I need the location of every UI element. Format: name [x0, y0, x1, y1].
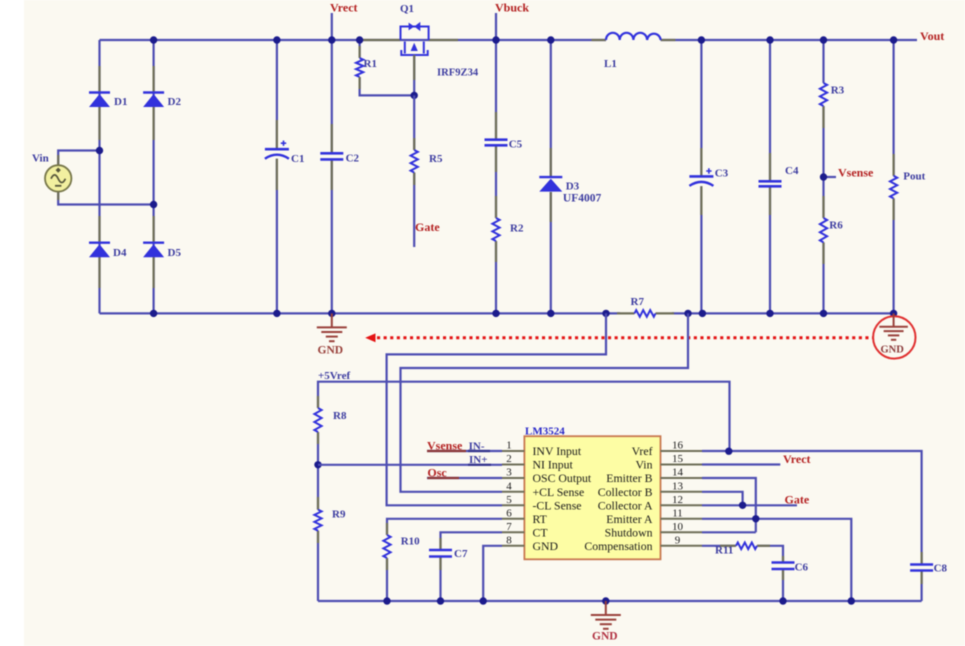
node top rail C5 [492, 36, 499, 43]
ground GND left [317, 313, 347, 341]
svg-text:Vin: Vin [636, 458, 653, 472]
underline Vsense [427, 450, 466, 452]
pin stubs R5 [413, 138, 415, 150]
node ground bus C4 [766, 310, 773, 317]
source Vin [45, 165, 71, 191]
svg-text:Vref: Vref [632, 444, 653, 458]
inductor L1 [606, 33, 661, 40]
pin stub R1 bottom [359, 77, 361, 89]
resistor R3 [820, 83, 827, 106]
svg-text:11: 11 [672, 507, 683, 519]
svg-text:Compensation: Compensation [584, 539, 652, 553]
svg-text:R7: R7 [631, 296, 645, 308]
wire C3 column [700, 40, 702, 313]
svg-text:Vrect: Vrect [330, 1, 358, 15]
pin 5 stub [502, 504, 524, 506]
node ground bus Pout corner [890, 310, 897, 317]
pin 14 stub [661, 477, 703, 479]
wire Vout stub [894, 39, 917, 41]
svg-text:INV Input: INV Input [533, 444, 582, 458]
pin stubs L1 [592, 39, 607, 41]
svg-text:C1: C1 [291, 153, 304, 165]
svg-text:GND: GND [881, 345, 905, 356]
pin 4 stub [502, 491, 524, 493]
wire R8 R9 column [317, 432, 319, 601]
svg-text:D2: D2 [168, 96, 182, 108]
node ground bus C1 [273, 310, 280, 317]
pin stubs C1 [276, 120, 278, 149]
svg-text:10: 10 [672, 521, 684, 533]
svg-text:R10: R10 [401, 536, 420, 548]
pin 1 stub [502, 450, 524, 452]
resistor R9 [314, 510, 321, 531]
svg-text:Vbuck: Vbuck [495, 1, 529, 15]
node R8 R9 junction [314, 461, 321, 468]
wire top rail Vrect-Vout [100, 39, 894, 41]
wire Vrect label stub [331, 13, 333, 40]
pin 9 stub [661, 545, 703, 547]
svg-text:1: 1 [506, 440, 512, 452]
underline IN- [468, 450, 490, 452]
pin stubs Pout [892, 154, 894, 176]
svg-text:16: 16 [672, 440, 684, 452]
pin 6 stub [502, 518, 524, 520]
wire C1 column [276, 40, 278, 313]
node bottom bus C6 [779, 597, 786, 604]
wire pin8 GND [483, 546, 502, 601]
svg-text:14: 14 [672, 467, 684, 479]
node gate junction [411, 92, 418, 99]
node top rail Vrect [328, 36, 335, 43]
node top rail C1 [273, 36, 280, 43]
ground GND right [879, 313, 908, 339]
svg-text:D1: D1 [114, 96, 127, 108]
diode D1 [89, 93, 110, 108]
resistor R1 [356, 58, 363, 77]
ground GND bottom [591, 601, 621, 629]
capacitor C4 [759, 181, 782, 186]
resistor R2 [492, 218, 499, 241]
wire D3 column [550, 40, 552, 313]
svg-text:R5: R5 [429, 153, 443, 165]
pin stub Q1 drain right [429, 39, 458, 41]
pin 2 stub [502, 464, 524, 466]
pin 8 stub [502, 545, 524, 547]
svg-text:R11: R11 [715, 545, 733, 557]
capacitor C6 [772, 563, 795, 570]
underline Osc [427, 477, 459, 479]
svg-text:GND: GND [592, 631, 618, 643]
capacitor C2 [320, 153, 343, 159]
pin stub Q1 gate [413, 55, 415, 80]
wire Vbuck label stub [495, 13, 497, 40]
node top rail C3 [698, 36, 705, 43]
wire R1 bottom to gate node [360, 77, 415, 95]
svg-text:3: 3 [506, 467, 512, 479]
pin stubs R7 [617, 312, 635, 314]
svg-text:RT: RT [533, 512, 548, 526]
svg-text:Vin: Vin [32, 153, 49, 165]
wire Vin top [58, 151, 99, 166]
wire Q1 gate stem [413, 55, 415, 95]
ground return arrow [365, 333, 872, 342]
svg-text:Pout: Pout [903, 171, 925, 183]
svg-text:8: 8 [506, 534, 512, 546]
underline IN+ [468, 464, 491, 466]
svg-text:Shutdown: Shutdown [605, 525, 653, 539]
svg-text:15: 15 [672, 453, 684, 465]
node top rail D2 [150, 36, 157, 43]
pin stubs C5 R2 [495, 112, 497, 140]
svg-text:C3: C3 [715, 168, 729, 180]
wire pin15 Vin Vrect [702, 463, 780, 465]
wire bottom ground bus [318, 600, 922, 602]
node Vin+ junction [96, 147, 103, 154]
wire R3 R6 column [822, 40, 824, 313]
node bottom bus R10 [383, 597, 390, 604]
node ground bus R6 [820, 310, 827, 317]
svg-text:CT: CT [533, 525, 549, 539]
node bottom bus pin11 [848, 597, 855, 604]
wire ground bus [100, 312, 894, 314]
svg-text:Emitter A: Emitter A [606, 512, 653, 526]
svg-text:C4: C4 [785, 165, 799, 177]
pin 12 stub [661, 504, 703, 506]
svg-text:C7: C7 [454, 548, 468, 560]
pin 13 stub [661, 491, 703, 493]
pin 16 stub [661, 450, 703, 452]
wire pin14 Emitter B [702, 478, 756, 532]
wire pin13 Collector B [702, 492, 743, 506]
wire Vsense stub [824, 176, 837, 178]
pin stub R1 top [359, 46, 361, 58]
diode D3 [539, 177, 562, 192]
node top rail Pout [890, 36, 897, 43]
node bottom bus GND [602, 597, 609, 604]
wire D2 D5 column [153, 40, 155, 313]
svg-text:Gate: Gate [415, 220, 440, 234]
wire +5Vref rail [318, 382, 730, 452]
svg-text:C8: C8 [934, 563, 948, 575]
resistor R11 [736, 543, 757, 550]
wire pin2 IN+ [318, 464, 502, 466]
node top rail R1 [356, 36, 363, 43]
svg-text:-CL Sense: -CL Sense [533, 498, 582, 512]
svg-text:D5: D5 [168, 247, 182, 259]
resistor R6 [820, 218, 827, 242]
svg-text:C2: C2 [346, 153, 360, 165]
wire pin3 Osc [427, 477, 502, 479]
capacitor C7 [429, 550, 452, 557]
svg-text:LM3524: LM3524 [525, 426, 565, 438]
diode D2 [143, 93, 164, 108]
svg-text:Q1: Q1 [400, 3, 414, 15]
op-amp U1 LM3524 body [524, 436, 660, 559]
svg-text:Vsense: Vsense [427, 439, 463, 453]
pin 7 stub [502, 531, 524, 533]
node top rail D3 [547, 36, 554, 43]
pin stubs R10 [386, 523, 388, 535]
svg-text:NI Input: NI Input [533, 458, 574, 472]
svg-text:7: 7 [506, 521, 512, 533]
node pin12 pin13 junction [739, 502, 746, 509]
capacitor C1 [265, 149, 289, 159]
node Vref junction [725, 448, 732, 455]
svg-text:Collector B: Collector B [598, 485, 653, 499]
diode D4 [89, 243, 110, 258]
svg-text:9: 9 [675, 534, 681, 546]
svg-text:5: 5 [506, 494, 512, 506]
wire pin1 IN- [427, 450, 502, 452]
node ground bus C2 [328, 310, 335, 317]
pin 11 stub [661, 518, 703, 520]
svg-text:R1: R1 [364, 58, 377, 70]
svg-text:Collector A: Collector A [598, 498, 653, 512]
node ground bus D3 [547, 310, 554, 317]
svg-text:Emitter B: Emitter B [606, 471, 652, 485]
resistor R7 [635, 310, 656, 317]
wire pin11 Emitter A [702, 519, 851, 601]
svg-text:R2: R2 [510, 223, 524, 235]
wire D1 D4 column [98, 40, 100, 313]
pin 15 stub [661, 464, 703, 466]
wire pin4 +CL Sense [401, 313, 689, 491]
resistor R10 [383, 535, 390, 558]
wire pin9 Compensation [702, 546, 783, 601]
svg-text:IN-: IN- [469, 441, 485, 453]
pin stubs C4 [769, 153, 771, 181]
svg-text:R8: R8 [333, 410, 347, 422]
wire pin10 Shutdown [702, 531, 756, 533]
wire C4 column [769, 40, 771, 313]
wire C5 R2 column [495, 40, 497, 313]
node ground bus R7 left [602, 310, 609, 317]
node Vin- junction [150, 201, 157, 208]
svg-text:Osc: Osc [427, 466, 447, 480]
svg-text:Gate: Gate [785, 493, 810, 507]
transistor Q1 [401, 22, 429, 55]
ground GND right circle [873, 316, 915, 358]
wire Pout column [892, 40, 894, 313]
svg-text:IRF9Z34: IRF9Z34 [437, 68, 479, 79]
svg-text:Vout: Vout [920, 29, 944, 43]
svg-text:L1: L1 [604, 58, 617, 70]
node top rail C4 [766, 36, 773, 43]
wire pin5 -CL Sense [387, 313, 606, 505]
pin stubs C3 [700, 148, 702, 176]
pin stubs D3 [550, 148, 552, 177]
svg-text:C5: C5 [509, 139, 523, 151]
wire pin12 Collector A Gate [702, 504, 797, 506]
svg-text:D4: D4 [113, 247, 127, 259]
node ground bus C3 [699, 310, 706, 317]
node bottom bus pin8 [480, 597, 487, 604]
svg-text:UF4007: UF4007 [563, 193, 602, 205]
plus sign C1 [281, 141, 286, 146]
svg-text:2: 2 [506, 453, 512, 465]
pin stubs R8 R9 [317, 396, 319, 408]
node ground bus R2 [492, 310, 499, 317]
resistor R5 [411, 150, 418, 173]
svg-text:+CL Sense: +CL Sense [533, 485, 585, 499]
svg-text:D3: D3 [566, 181, 580, 193]
wire R1 top [359, 40, 361, 58]
node ground bus R7 right [684, 310, 691, 317]
svg-text:GND: GND [533, 539, 559, 553]
svg-text:13: 13 [672, 480, 684, 492]
pin stubs R11 C6 [720, 545, 736, 547]
pin stubs D2 D5 [153, 66, 155, 93]
diode D5 [143, 243, 164, 258]
svg-text:GND: GND [318, 345, 344, 357]
wire pin6 RT [387, 519, 502, 601]
pin stubs C8 [920, 552, 922, 565]
svg-text:Vsense: Vsense [838, 166, 874, 180]
pin 3 stub [502, 477, 524, 479]
wire C2 Vrect column [331, 40, 333, 313]
svg-text:4: 4 [506, 480, 512, 492]
resistor R8 [314, 408, 321, 432]
pin stubs C2 [331, 124, 333, 153]
node bottom bus C7 [437, 597, 444, 604]
svg-text:R6: R6 [829, 220, 843, 232]
node pin11 pin14 junction [752, 515, 759, 522]
wire pin16 Vref to C8 [702, 451, 922, 601]
svg-text:12: 12 [672, 494, 683, 506]
svg-text:R9: R9 [332, 509, 346, 521]
svg-text:IN+: IN+ [469, 454, 488, 466]
wire pin7 CT [441, 532, 503, 601]
capacitor C3 [689, 176, 713, 186]
svg-text:+5Vref: +5Vref [318, 370, 350, 382]
pin stub Q1 source [362, 39, 401, 41]
node ground bus D5 [150, 310, 157, 317]
svg-text:OSC Output: OSC Output [533, 471, 592, 485]
node Vsense [820, 173, 827, 180]
svg-text:R3: R3 [831, 85, 845, 97]
pin stubs R3 R6 [822, 106, 824, 128]
svg-text:Vrect: Vrect [783, 452, 811, 466]
pin 10 stub [661, 531, 703, 533]
plus sign C3 [706, 168, 711, 173]
svg-text:C6: C6 [795, 562, 809, 574]
resistor Pout [890, 176, 897, 199]
pin stubs D1 D4 [98, 66, 100, 93]
svg-text:6: 6 [506, 507, 512, 519]
wire R5 column [413, 95, 415, 247]
pin stubs Vin [57, 155, 59, 166]
capacitor C8 [910, 565, 933, 571]
pin stubs C7 [439, 538, 441, 550]
node top rail R3 [820, 36, 827, 43]
wire Vin bottom [58, 192, 153, 205]
capacitor C5 [485, 140, 508, 146]
